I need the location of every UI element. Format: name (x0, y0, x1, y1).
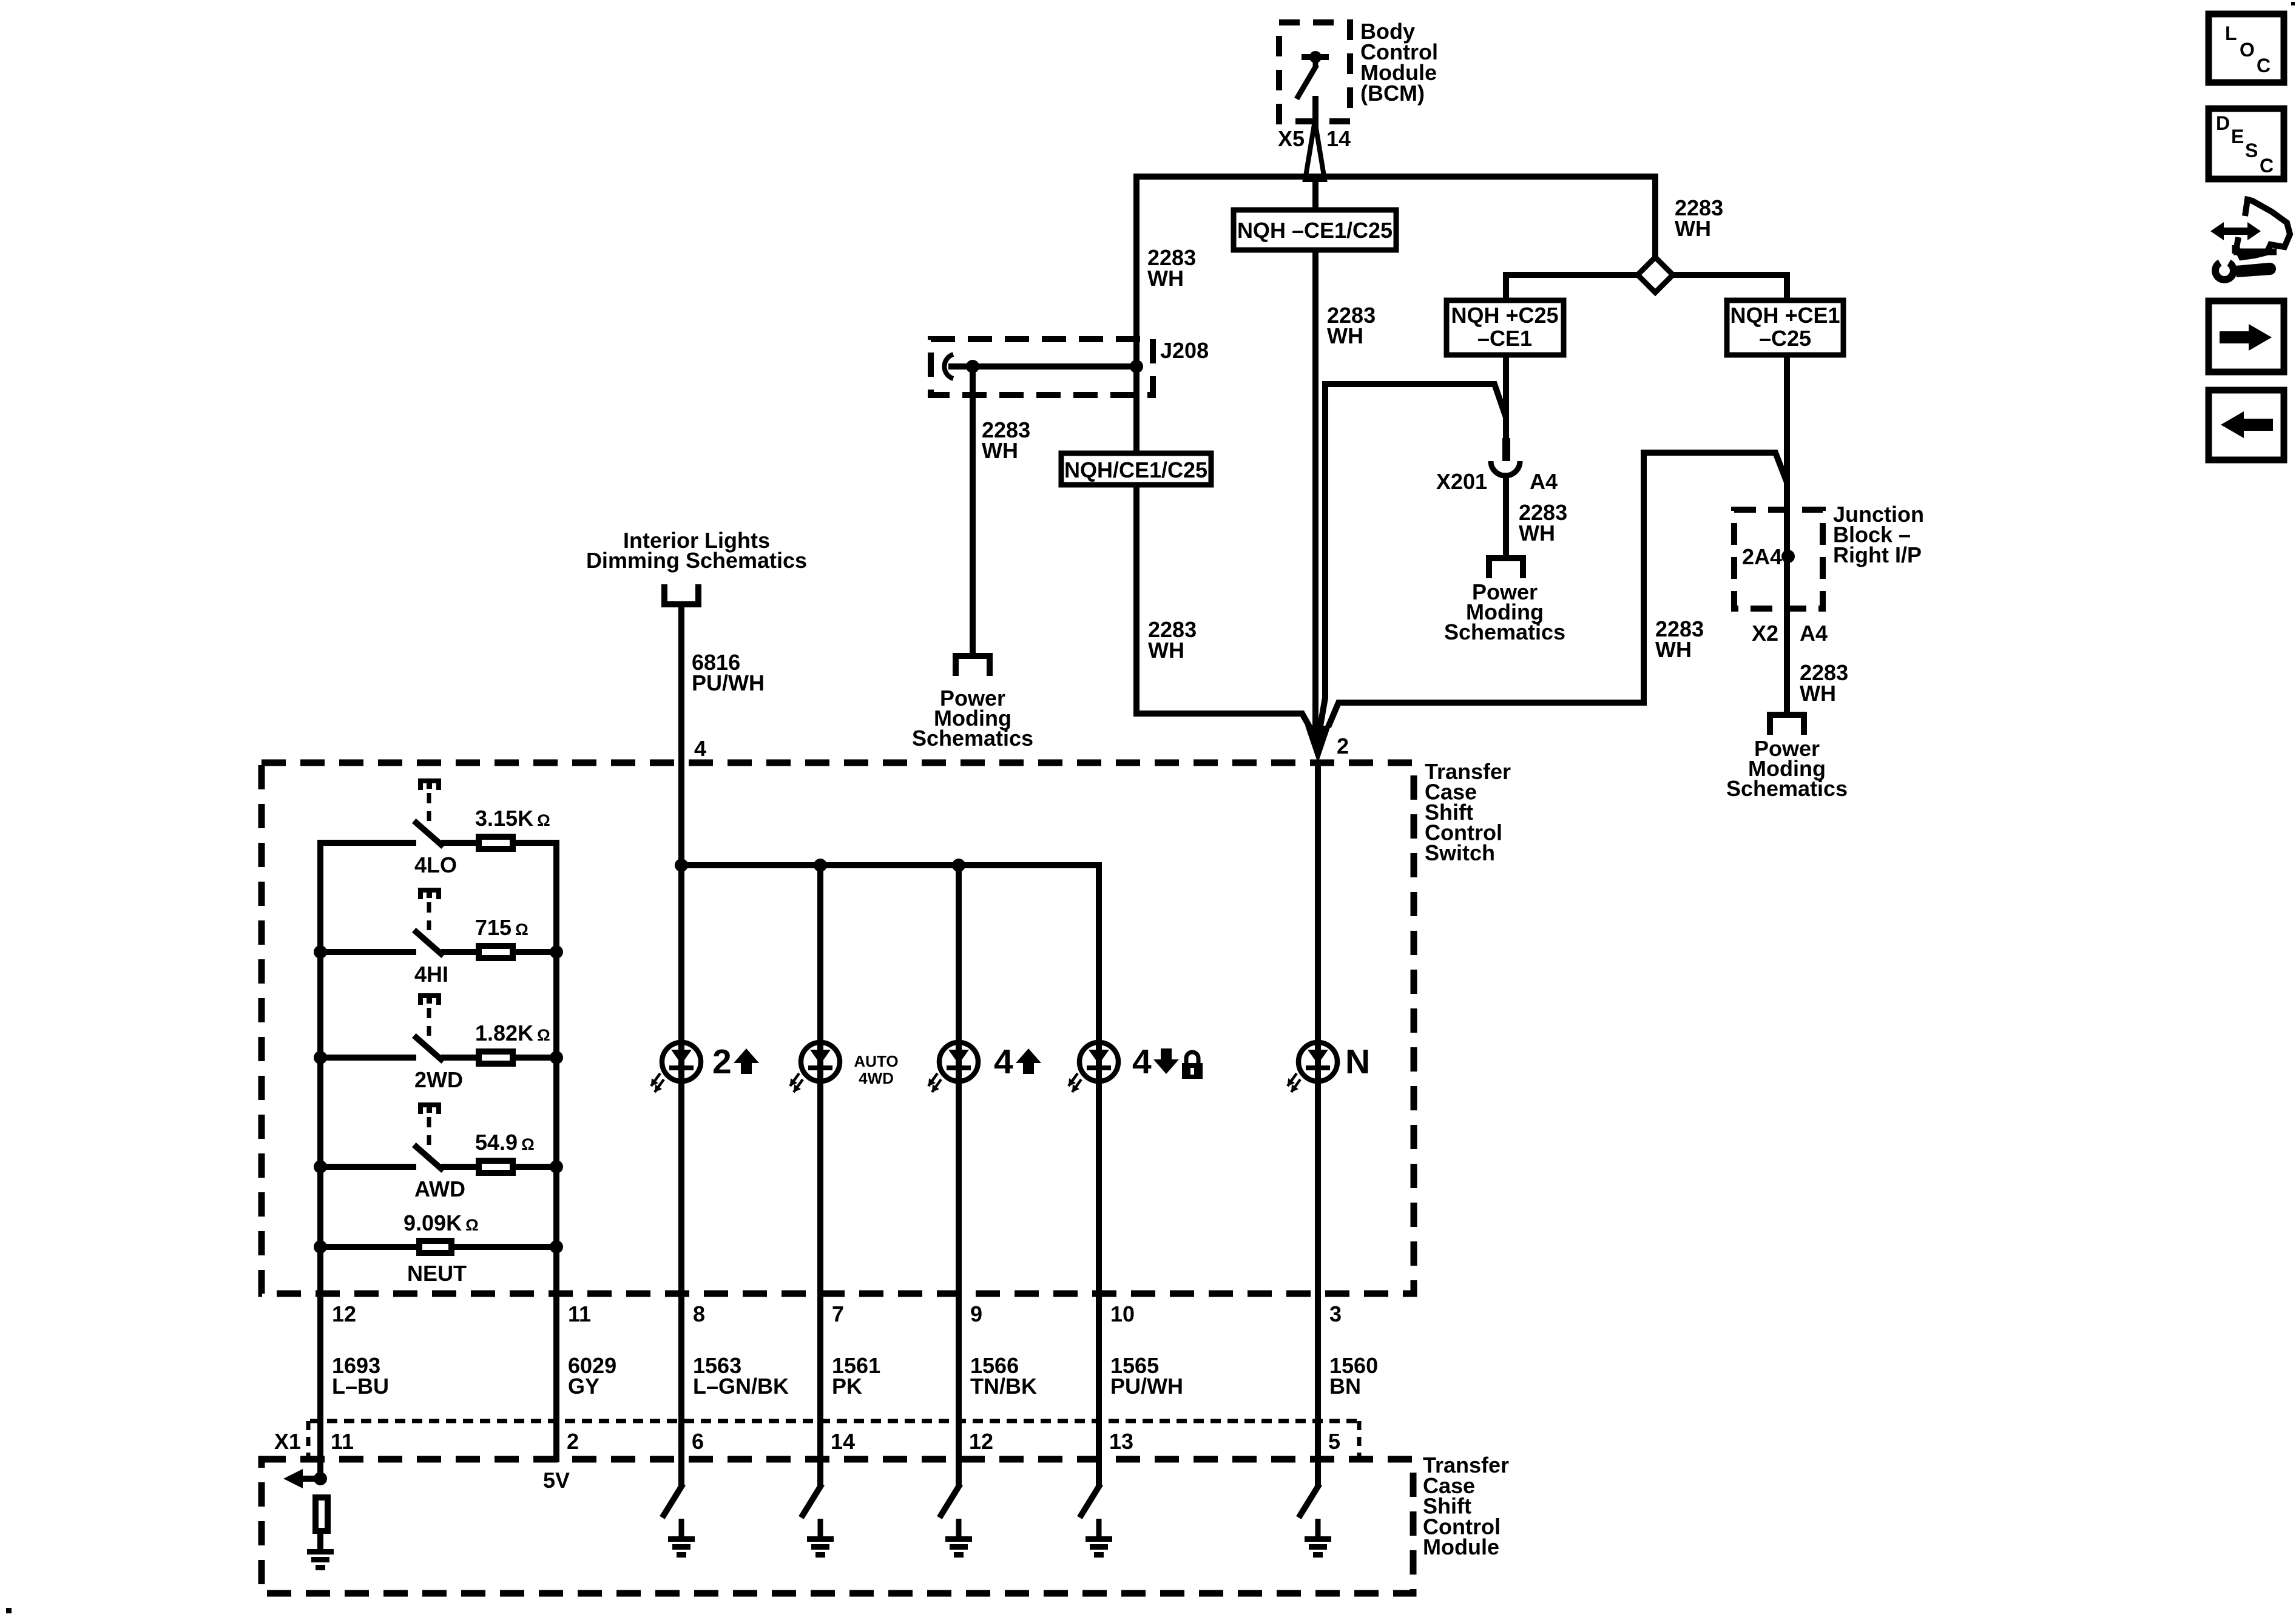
svg-text:Dimming Schematics: Dimming Schematics (586, 548, 807, 573)
connector X5/14 (BCM) (1278, 121, 1351, 180)
ground (X1 pin 13) (1086, 1536, 1112, 1558)
wire: LED supply bus from pin 4 (681, 862, 1102, 868)
wire: LED branch to pin 9 (956, 865, 962, 1487)
svg-text:Switch: Switch (1425, 840, 1495, 865)
wire label 6816 PU/WH (692, 650, 765, 695)
label X1 pin 6 (692, 1429, 704, 1454)
module ground switch (X1 pin 6) (664, 1487, 681, 1538)
wire label 2283 WH (top right) (1675, 195, 1723, 241)
sidebar icon DESC (2209, 109, 2284, 179)
svg-text:PK: PK (832, 1374, 862, 1399)
off-page connector (Power Moding, from X201) (1486, 555, 1526, 578)
wire: diamond to NQH +C25 -CE1 box (1506, 275, 1639, 300)
svg-text:5V: 5V (543, 1468, 570, 1493)
label J208 (1160, 338, 1209, 363)
svg-text:WH: WH (1148, 638, 1184, 663)
sidebar icon wrench/navigation (2210, 200, 2290, 283)
switch contact 4HI with resistor 715 ohm (320, 888, 556, 987)
svg-text:L–BU: L–BU (332, 1374, 389, 1399)
switch contact 2WD with resistor 1.82K ohm (320, 993, 556, 1092)
wire label 2283 WH (J208 drop lower) (1148, 617, 1197, 663)
module ground switch (X1 pin 14) (803, 1487, 820, 1538)
module box: Body Control Module (BCM) (1279, 22, 1350, 121)
svg-text:14: 14 (831, 1429, 855, 1454)
module box: Transfer Case Shift Control Switch (262, 763, 1414, 1294)
wire: bus left drop through J208 splice to pin 2 arrow (1136, 177, 1313, 733)
off-page connector (Power Moding, from junction block) (1767, 712, 1807, 735)
svg-text:NQH/CE1/C25: NQH/CE1/C25 (1064, 457, 1207, 482)
LED indicator Neutral (N) (1288, 1042, 1370, 1092)
svg-text:WH: WH (1519, 521, 1555, 545)
module ground switch (X1 pin 13) (1081, 1487, 1099, 1538)
svg-text:–CE1: –CE1 (1477, 326, 1532, 351)
module internal signal arrow (pin 11) (283, 1469, 327, 1488)
svg-text:3: 3 (1329, 1301, 1342, 1326)
label: Power Moding Schematics (center) (1444, 579, 1565, 644)
labels X2 / A4 (1752, 621, 1828, 646)
label: Transfer Case Shift Control Switch (1425, 759, 1511, 865)
wire: switch right bus (pin 11) (553, 843, 559, 1462)
svg-text:WH: WH (1675, 216, 1711, 241)
connector X1 line (274, 1421, 1360, 1459)
svg-text:A4: A4 (1530, 469, 1558, 494)
svg-text:PU/WH: PU/WH (692, 670, 765, 695)
module internal resistor (316, 1497, 328, 1551)
ground (module internal resistor) (307, 1549, 334, 1570)
label X1 pin 12 (969, 1429, 993, 1454)
ground (X1 pin 14) (807, 1536, 834, 1558)
svg-text:E: E (2231, 126, 2244, 147)
svg-text:7: 7 (832, 1301, 844, 1326)
svg-text:L–GN/BK: L–GN/BK (693, 1374, 789, 1399)
label X1 pin 2 (567, 1429, 579, 1454)
junction dots AWD row (314, 1160, 563, 1173)
svg-text:6: 6 (692, 1429, 704, 1454)
svg-text:2: 2 (712, 1042, 732, 1081)
switch contact 4LO with resistor 3.15K ohm (317, 778, 559, 877)
svg-text:2: 2 (1337, 734, 1349, 758)
wire: LED branch to pin 7 (817, 865, 823, 1487)
svg-text:BN: BN (1329, 1374, 1361, 1399)
wire: NQH +CE1 -C25 box through Junction Block to off-page (1784, 355, 1790, 714)
svg-text:N: N (1345, 1042, 1370, 1081)
wire: LED branch to pin 8 (678, 865, 684, 1487)
LED indicator 4WD-low lock (4 down lock) (1069, 1042, 1203, 1092)
svg-text:11: 11 (568, 1301, 591, 1326)
svg-text:GY: GY (568, 1374, 599, 1399)
module ground switch (X1 pin 5) (1300, 1487, 1318, 1538)
junction dots NEUT row (314, 1240, 563, 1254)
page mark bottom-left (6, 1608, 12, 1613)
svg-text:AUTO: AUTO (854, 1052, 898, 1070)
label X1 pin 5 (1328, 1429, 1340, 1454)
wire: pin 2 to N LED to pin 3 (1315, 762, 1321, 1487)
svg-text:2A4: 2A4 (1742, 544, 1782, 569)
svg-text:X201: X201 (1436, 469, 1487, 494)
svg-text:X2: X2 (1752, 621, 1778, 646)
svg-text:O: O (2240, 39, 2255, 61)
junction dots on LED bus (675, 859, 965, 872)
svg-text:4: 4 (1132, 1042, 1152, 1081)
svg-text:J208: J208 (1160, 338, 1209, 363)
ground (X1 pin 6) (668, 1536, 695, 1558)
svg-text:9: 9 (970, 1301, 982, 1326)
svg-text:X1: X1 (274, 1429, 301, 1454)
svg-text:–C25: –C25 (1759, 326, 1811, 351)
svg-text:13: 13 (1109, 1429, 1133, 1454)
wire: branch from X201 drop to pin 2 arrow (1319, 384, 1506, 733)
svg-text:4LO: 4LO (414, 852, 457, 877)
page mark top-right (2291, 2, 2295, 5)
label switch pin 12 (332, 1301, 356, 1326)
wire label 2283 WH (loop vertical) (1655, 616, 1704, 662)
label switch pin 10 (1110, 1301, 1135, 1326)
LED indicator AUTO 4WD (790, 1042, 899, 1092)
svg-text:2WD: 2WD (414, 1067, 463, 1092)
wire: switch left bus (pin 12) (317, 843, 323, 1479)
ground (X1 pin 5) (1305, 1536, 1331, 1558)
junction terminal 2A4 (1742, 544, 1795, 569)
svg-text:14: 14 (1326, 126, 1351, 151)
svg-text:A4: A4 (1800, 621, 1828, 646)
sidebar icon arrow left (2209, 390, 2284, 460)
off-page connector (Interior Lights Dimming) (661, 584, 701, 607)
wire: BCM pin 14 down to switch pin 2 arrow (1312, 96, 1319, 735)
svg-text:12: 12 (332, 1301, 356, 1326)
wire label 2283 WH (below NQH box) (1327, 303, 1376, 348)
svg-text:WH: WH (1327, 323, 1363, 348)
svg-text:10: 10 (1110, 1301, 1135, 1326)
svg-text:11: 11 (331, 1429, 354, 1454)
wire label 2283 WH (J208 drop upper) (1147, 245, 1196, 291)
junction dots 4HI row (314, 945, 563, 959)
wire: LED branch to pin 10 (1096, 865, 1102, 1487)
svg-text:PU/WH: PU/WH (1110, 1374, 1183, 1399)
wire: interior lights to switch pin 4 (678, 607, 684, 865)
ground (X1 pin 12) (945, 1536, 972, 1558)
svg-text:WH: WH (1800, 681, 1836, 706)
wire label 1560 BN (1329, 1353, 1378, 1399)
wire: J208 to Power Moding Schematics (970, 366, 976, 654)
splice diamond (1638, 257, 1673, 292)
svg-text:NQH –CE1/C25: NQH –CE1/C25 (1237, 218, 1393, 243)
svg-text:D: D (2216, 112, 2230, 134)
wire label 6029 GY (568, 1353, 616, 1399)
wire: bus right drop to splice diamond (1652, 177, 1658, 262)
svg-text:X5: X5 (1278, 126, 1305, 151)
label X1 pin 13 (1109, 1429, 1133, 1454)
sidebar icon arrow right (2209, 301, 2284, 372)
module ground switch (X1 pin 12) (941, 1487, 959, 1538)
wire label 2283 WH (J208 branch) (982, 417, 1030, 463)
label X1 pin 14 (831, 1429, 855, 1454)
svg-text:WH: WH (1147, 266, 1184, 291)
label switch pin 11 (568, 1301, 591, 1326)
svg-text:S: S (2245, 140, 2258, 161)
svg-text:L: L (2225, 22, 2237, 44)
module box: Junction Block - Right I/P (1734, 510, 1823, 609)
svg-text:C: C (2260, 155, 2274, 177)
svg-text:C: C (2257, 55, 2271, 76)
off-page connector (Power Moding, from J208) (953, 653, 993, 676)
svg-text:Right I/P: Right I/P (1833, 542, 1922, 567)
net label box: NQH/CE1/C25 (1061, 453, 1211, 485)
wire label 1565 PU/WH (1110, 1353, 1183, 1399)
svg-text:4HI: 4HI (414, 962, 448, 987)
wire label 1566 TN/BK (970, 1353, 1037, 1399)
arrow into switch pin 2 (1305, 726, 1349, 763)
wire label 1693 L–BU (332, 1353, 389, 1399)
label: Junction Block - Right I/P (1833, 502, 1924, 567)
svg-text:12: 12 (969, 1429, 993, 1454)
wire: diamond to NQH +CE1 -C25 box (1672, 275, 1787, 300)
svg-text:Module: Module (1423, 1534, 1499, 1559)
sidebar icon LOC (2209, 14, 2284, 83)
label: Interior Lights Dimming Schematics (586, 528, 807, 573)
label switch pin 9 (970, 1301, 982, 1326)
svg-text:4: 4 (994, 1042, 1013, 1081)
svg-text:WH: WH (1655, 637, 1692, 662)
svg-text:NQH +C25: NQH +C25 (1451, 303, 1558, 328)
svg-text:Schematics: Schematics (1444, 619, 1565, 644)
net label box: NQH +C25 –CE1 (1447, 300, 1564, 355)
net label box: NQH +CE1 –C25 (1727, 300, 1843, 355)
LED indicator 4WD-high (4 up) (928, 1042, 1041, 1092)
svg-text:5: 5 (1328, 1429, 1340, 1454)
label: Body Control Module (BCM) (1360, 19, 1438, 106)
resistor 9.09K ohm (NEUT) (320, 1210, 556, 1286)
wire label 1563 L–GN/BK (693, 1353, 789, 1399)
net label box: NQH –CE1/C25 (1234, 210, 1396, 250)
svg-text:Schematics: Schematics (912, 726, 1033, 751)
splice J208 bus bar (944, 354, 1143, 379)
svg-text:2: 2 (567, 1429, 579, 1454)
label pin 4 (694, 736, 706, 761)
splice pack J208 box (931, 339, 1153, 395)
LED indicator 2WD-high (2 up) (651, 1042, 759, 1092)
label switch pin 7 (832, 1301, 844, 1326)
svg-text:8: 8 (693, 1301, 705, 1326)
wire: X201 to Power Moding Schematics (1503, 473, 1509, 556)
switch contact AWD with resistor 54.9 ohm (320, 1102, 556, 1201)
module box: Transfer Case Shift Control Module (262, 1459, 1413, 1593)
wire: Junction Block branch to pin 2 arrow (1328, 453, 1787, 727)
svg-text:WH: WH (982, 438, 1018, 463)
svg-text:TN/BK: TN/BK (970, 1374, 1037, 1399)
junction dots 2WD row (314, 1051, 563, 1064)
wire label 1561 PK (832, 1353, 880, 1399)
svg-text:NEUT: NEUT (407, 1261, 467, 1286)
svg-text:4WD: 4WD (859, 1069, 894, 1087)
BCM internal switch contact (1297, 51, 1329, 99)
connector X201/A4 (1436, 438, 1558, 494)
svg-text:4: 4 (694, 736, 706, 761)
wire: top bus from J208 drop to splice diamond (1133, 174, 1658, 180)
label switch pin 3 (1329, 1301, 1342, 1326)
svg-text:(BCM): (BCM) (1360, 81, 1425, 106)
label: Transfer Case Shift Control Module (1423, 1453, 1509, 1559)
label X1 pin 11 (331, 1429, 354, 1454)
wire label 2283 WH (X201 drop) (1519, 500, 1567, 545)
label: Power Moding Schematics (left) (912, 686, 1033, 751)
wire label 2283 WH (junction block drop) (1800, 660, 1848, 706)
svg-text:Schematics: Schematics (1726, 776, 1848, 801)
label switch pin 8 (693, 1301, 705, 1326)
label: Power Moding Schematics (right) (1726, 736, 1848, 801)
svg-text:AWD: AWD (414, 1176, 465, 1201)
wire: NQH +C25 -CE1 box to X201 (1503, 355, 1509, 439)
label 5V (543, 1468, 570, 1493)
svg-text:NQH +CE1: NQH +CE1 (1730, 303, 1840, 328)
